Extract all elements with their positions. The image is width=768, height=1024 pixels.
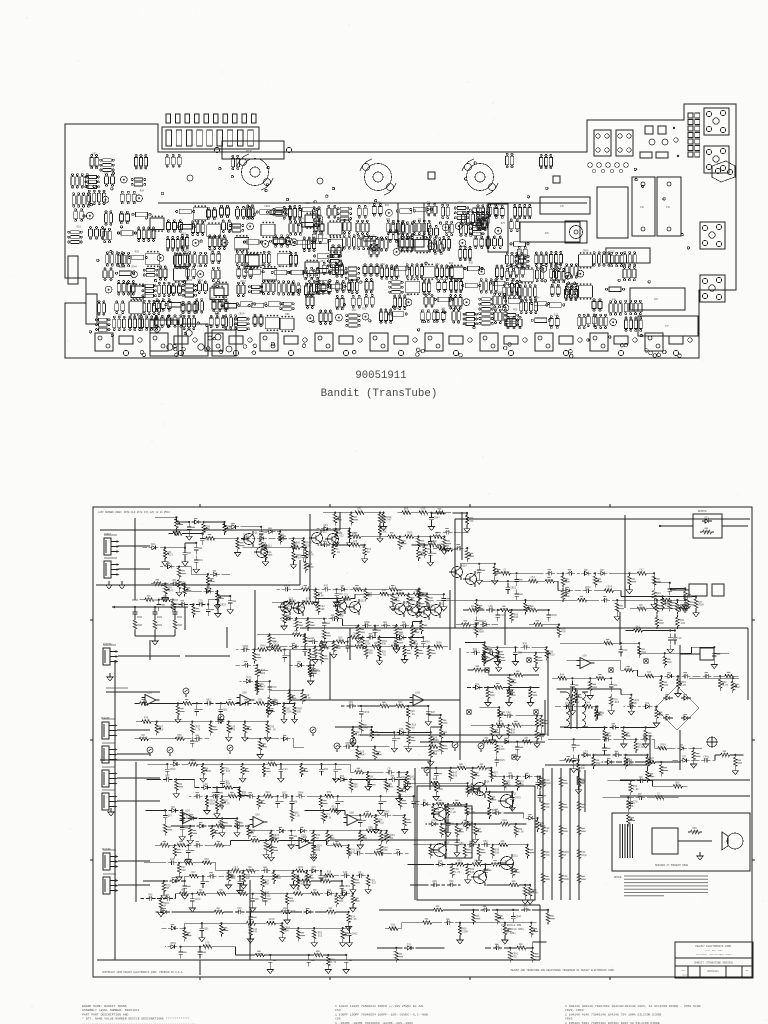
- svg-text:Q51: Q51: [223, 708, 228, 711]
- frame zone ticks: [90, 504, 755, 980]
- svg-text:Q85: Q85: [206, 587, 211, 590]
- svg-text:4.7K: 4.7K: [270, 728, 276, 731]
- pot footprint: [565, 221, 587, 243]
- cap CF1 body: [632, 177, 655, 236]
- svg-text:220K: 220K: [698, 604, 704, 607]
- bottom mid rows: [377, 905, 555, 962]
- svg-text:3.3K: 3.3K: [249, 921, 255, 924]
- source symbols: [147, 688, 484, 776]
- svg-text:.01: .01: [382, 653, 387, 656]
- svg-text:15K: 15K: [383, 849, 388, 852]
- svg-text:47K: 47K: [324, 587, 329, 590]
- svg-text:220K: 220K: [462, 930, 468, 933]
- PCB parts center upper: [166, 202, 355, 253]
- svg-text:4.7K: 4.7K: [269, 921, 275, 924]
- top right sparse: [625, 604, 689, 653]
- svg-text:10K: 10K: [320, 608, 325, 611]
- svg-text:22K: 22K: [242, 794, 247, 797]
- relay RLY2: [488, 204, 508, 252]
- svg-text:COPYRIGHT 1995 PEAVEY ELECTRON: COPYRIGHT 1995 PEAVEY ELECTRONICS CORP. …: [102, 971, 184, 974]
- svg-text:220K: 220K: [286, 710, 292, 713]
- svg-text:2.2M: 2.2M: [680, 684, 686, 687]
- svg-text:.047: .047: [271, 838, 277, 841]
- svg-text:220K: 220K: [382, 592, 388, 595]
- svg-text:U2A: U2A: [186, 810, 191, 813]
- svg-text:CR44: CR44: [119, 266, 125, 269]
- input stage2: [140, 563, 236, 617]
- svg-text:Q77: Q77: [682, 756, 687, 759]
- svg-text:U62: U62: [352, 309, 357, 312]
- svg-text:47pF: 47pF: [560, 676, 566, 679]
- svg-text:15K: 15K: [265, 882, 270, 885]
- svg-text:U52: U52: [92, 152, 97, 155]
- svg-text:(ALT KMB): (ALT KMB): [503, 932, 516, 935]
- svg-text:C22: C22: [554, 314, 559, 317]
- svg-text:4.7K: 4.7K: [474, 862, 480, 865]
- lower left rows: [141, 759, 420, 924]
- svg-text:33K: 33K: [453, 775, 458, 778]
- svg-text:470: 470: [356, 851, 361, 854]
- svg-text:PEAVEY ELECTRONICS CORP.: PEAVEY ELECTRONICS CORP.: [695, 945, 732, 948]
- svg-text:10K: 10K: [300, 882, 305, 885]
- svg-text:PREAMP: PREAMP: [101, 717, 110, 720]
- cap CF2 body: [657, 177, 681, 236]
- svg-text:T7: T7: [665, 324, 669, 328]
- svg-text:1 4N4148 4N4148 73007002: 1 4N4148 4N4148 73007002 4N4148/1N4148 1…: [565, 1004, 701, 1008]
- svg-text:C89: C89: [240, 264, 245, 267]
- svg-text:CR24: CR24: [449, 276, 455, 279]
- svg-text:Q50: Q50: [600, 712, 605, 715]
- relay top rows: [316, 508, 457, 566]
- svg-text:6.8K: 6.8K: [532, 892, 538, 895]
- svg-text:Meridian, Mississippi 39301: Meridian, Mississippi 39301: [696, 953, 732, 956]
- svg-text:CR78: CR78: [195, 898, 201, 901]
- svg-text:Q53: Q53: [459, 842, 464, 845]
- parts list column 1: [82, 1004, 195, 1024]
- svg-text:33K: 33K: [272, 702, 277, 705]
- svg-text:C34: C34: [500, 614, 505, 617]
- svg-text:C53: C53: [272, 686, 277, 689]
- bottom left rows: [155, 907, 358, 973]
- svg-text:47K: 47K: [237, 910, 242, 913]
- svg-text:680: 680: [186, 861, 191, 864]
- psu rows: [552, 639, 739, 714]
- PCB parts center mid: [356, 201, 502, 253]
- IC U10: [175, 253, 189, 270]
- svg-text:680: 680: [353, 786, 358, 789]
- svg-text:100K: 100K: [227, 528, 233, 531]
- svg-text:.047: .047: [421, 554, 427, 557]
- svg-text:3.3K: 3.3K: [353, 543, 359, 546]
- svg-text:22K: 22K: [170, 861, 175, 864]
- svg-text:C22: C22: [203, 783, 208, 786]
- svg-text:D51: D51: [333, 261, 338, 264]
- svg-text:47K: 47K: [253, 931, 258, 934]
- svg-text:10K: 10K: [680, 607, 685, 610]
- svg-text:.022: .022: [370, 882, 376, 885]
- part RC1 body: [214, 141, 291, 159]
- svg-text:BANDIT (TRANSTUBE SERIES): BANDIT (TRANSTUBE SERIES): [695, 961, 734, 965]
- svg-text:U3: U3: [654, 297, 658, 301]
- schematic bus wires: [96, 512, 750, 975]
- svg-text:CR62: CR62: [197, 279, 203, 282]
- svg-text:Q14: Q14: [463, 565, 468, 568]
- svg-text:220K: 220K: [499, 748, 505, 751]
- part RL1 body: [597, 187, 628, 238]
- svg-text:220K: 220K: [365, 643, 371, 646]
- svg-text:CR73: CR73: [246, 677, 252, 680]
- relay RLY1: [398, 203, 424, 247]
- svg-text:1 10425 10425 70500012: 1 10425 10425 70500012 10MFD +/-10% 25VD…: [335, 1004, 424, 1008]
- title block: [675, 942, 753, 978]
- svg-text:C5: C5: [560, 204, 564, 208]
- baffle note text: [501, 924, 525, 935]
- svg-text:Q94: Q94: [327, 889, 332, 892]
- svg-text:(JBL BAFFLE KMB): (JBL BAFFLE KMB): [501, 928, 525, 931]
- svg-text:.01: .01: [410, 713, 415, 716]
- PCB board outline: [65, 104, 736, 358]
- svg-text:100K: 100K: [209, 802, 215, 805]
- svg-text:Q53: Q53: [340, 775, 345, 778]
- svg-text:Q11: Q11: [268, 545, 273, 548]
- chassis ground symbols: [467, 658, 648, 759]
- drive strip rows: [257, 585, 450, 665]
- PCB parts left lower: [96, 297, 295, 332]
- svg-text:100K: 100K: [433, 781, 439, 784]
- svg-text:22K: 22K: [469, 824, 474, 827]
- svg-text:10K: 10K: [656, 595, 661, 598]
- svg-text:100K: 100K: [430, 543, 436, 546]
- svg-text:U37: U37: [261, 264, 266, 267]
- svg-text:U46: U46: [441, 308, 446, 311]
- svg-text:.022: .022: [266, 794, 272, 797]
- mid center rows: [467, 648, 549, 767]
- fsw mid rows: [134, 698, 304, 758]
- svg-text:15K: 15K: [298, 794, 303, 797]
- top mid rows: [431, 512, 474, 562]
- svg-text:4.7K: 4.7K: [268, 847, 274, 850]
- svg-text:6.8K: 6.8K: [206, 701, 212, 704]
- svg-text:47pF: 47pF: [327, 794, 333, 797]
- svg-text:100K: 100K: [259, 672, 265, 675]
- svg-text:U41: U41: [248, 217, 253, 220]
- jack J5: [700, 222, 725, 249]
- PCB parts center low: [306, 260, 525, 327]
- svg-text:C61: C61: [362, 308, 367, 311]
- heatsink screw holes: [187, 172, 560, 184]
- remote speaker inset: [612, 813, 750, 871]
- svg-text:100K: 100K: [205, 770, 211, 773]
- svg-text:470: 470: [629, 705, 634, 708]
- svg-text:22K: 22K: [585, 589, 590, 592]
- svg-text:100K: 100K: [436, 645, 442, 648]
- svg-text:R91: R91: [199, 559, 204, 562]
- svg-text:CR47: CR47: [516, 916, 522, 919]
- svg-text:680: 680: [159, 728, 164, 731]
- svg-text:6.8K: 6.8K: [427, 551, 433, 554]
- svg-text:R28: R28: [449, 262, 454, 265]
- svg-text:680: 680: [384, 813, 389, 816]
- svg-text:C53: C53: [584, 750, 589, 753]
- left vertical parts: [68, 256, 97, 324]
- svg-text:.047: .047: [422, 595, 428, 598]
- svg-text:C27: C27: [133, 297, 138, 300]
- svg-text:U6B: U6B: [243, 692, 248, 695]
- svg-text:6.8K: 6.8K: [177, 737, 183, 740]
- svg-text:R44: R44: [151, 543, 156, 546]
- svg-text:D6: D6: [545, 231, 549, 235]
- svg-text:CR59: CR59: [170, 942, 176, 945]
- svg-text:10K: 10K: [495, 851, 500, 854]
- svg-text:33K: 33K: [338, 639, 343, 642]
- svg-text:U3A: U3A: [256, 814, 261, 817]
- svg-text:R89: R89: [224, 299, 229, 302]
- svg-text:6.8K: 6.8K: [393, 645, 399, 648]
- svg-text:4.7K: 4.7K: [498, 723, 504, 726]
- svg-text:SCALE: SCALE: [682, 974, 687, 977]
- svg-text:4.7K: 4.7K: [294, 815, 300, 818]
- svg-text:3.3K: 3.3K: [638, 746, 644, 749]
- power output stage Q30-Q35: [417, 780, 535, 900]
- svg-text:Q13: Q13: [361, 600, 366, 603]
- svg-text:Q15: Q15: [401, 776, 406, 779]
- svg-text:3.3K: 3.3K: [191, 874, 197, 877]
- PCB parts strip fill: [165, 153, 552, 169]
- svg-text:R69: R69: [513, 309, 518, 312]
- svg-text:Q11: Q11: [514, 855, 519, 858]
- svg-text:47K: 47K: [457, 862, 462, 865]
- svg-text:15K: 15K: [488, 608, 493, 611]
- svg-text:470: 470: [586, 704, 591, 707]
- svg-text:.047: .047: [224, 770, 230, 773]
- svg-text:.022: .022: [506, 714, 512, 717]
- svg-text:3.3K: 3.3K: [191, 762, 197, 765]
- svg-text:33K: 33K: [433, 753, 438, 756]
- svg-text:47K: 47K: [345, 745, 350, 748]
- svg-text:D53: D53: [321, 260, 326, 263]
- svg-text:22K: 22K: [703, 758, 708, 761]
- remote switch box: [659, 510, 748, 538]
- svg-text:470: 470: [545, 854, 550, 857]
- svg-text:D79: D79: [104, 172, 109, 175]
- PCB parts right upper scatter: [445, 204, 531, 237]
- svg-text:CR44: CR44: [131, 265, 137, 268]
- svg-text:U16: U16: [174, 281, 179, 284]
- svg-text:.022: .022: [378, 821, 384, 824]
- svg-text:.022: .022: [316, 934, 322, 937]
- svg-text:.01: .01: [433, 883, 438, 886]
- svg-text:C16: C16: [677, 637, 682, 640]
- input stage rows: [142, 516, 314, 573]
- svg-text:.047: .047: [503, 822, 509, 825]
- svg-text:P.O. BOX 2898: P.O. BOX 2898: [705, 949, 723, 952]
- svg-text:R75: R75: [501, 222, 506, 225]
- svg-text:CR14: CR14: [238, 312, 244, 315]
- svg-text:CR62: CR62: [352, 932, 358, 935]
- svg-text:4.7K: 4.7K: [370, 778, 376, 781]
- svg-text:33K: 33K: [368, 829, 373, 832]
- svg-text:220K: 220K: [545, 782, 551, 785]
- svg-text:1 100PF 100PF 70040054: 1 100PF 100PF 70040054 100PF--10%--50VDC…: [335, 1012, 428, 1016]
- svg-text:C36: C36: [399, 728, 404, 731]
- IC U11: [245, 253, 259, 270]
- svg-text:R40: R40: [228, 872, 233, 875]
- svg-text:CR73: CR73: [515, 797, 521, 800]
- svg-text:Q51: Q51: [204, 927, 209, 930]
- svg-text:Bandit (TransTube): Bandit (TransTube): [321, 388, 438, 400]
- svg-text:33K: 33K: [404, 511, 409, 514]
- svg-text:R10: R10: [494, 307, 499, 310]
- svg-text:680: 680: [181, 869, 186, 872]
- svg-text:2.2M: 2.2M: [407, 534, 413, 537]
- svg-text:CR47: CR47: [240, 280, 246, 283]
- svg-text:47pF: 47pF: [523, 645, 529, 648]
- svg-text:C85: C85: [610, 250, 615, 253]
- connector J2 pin rows: [688, 113, 700, 157]
- AC inlet P1: [707, 737, 717, 747]
- svg-text:R48: R48: [612, 299, 617, 302]
- svg-text:470: 470: [368, 652, 373, 655]
- svg-text:470: 470: [327, 873, 332, 876]
- svg-text:R91: R91: [324, 768, 329, 771]
- svg-text:.01: .01: [388, 770, 393, 773]
- svg-text:47pF: 47pF: [581, 854, 587, 857]
- PCB filler parts: [266, 207, 596, 327]
- svg-text:.047: .047: [386, 519, 392, 522]
- svg-text:CR38: CR38: [170, 768, 176, 771]
- connector J1 body: [162, 127, 259, 149]
- svg-text:Q67: Q67: [168, 815, 173, 818]
- jack J6: [700, 275, 725, 302]
- svg-text:R24: R24: [140, 189, 145, 192]
- svg-text:4.7K: 4.7K: [331, 961, 337, 964]
- svg-text:D52: D52: [77, 226, 82, 229]
- svg-text:.022: .022: [265, 895, 271, 898]
- op-amps U1-U9: [142, 649, 595, 849]
- svg-text:D96: D96: [376, 201, 381, 204]
- svg-text:100K: 100K: [234, 869, 240, 872]
- svg-text:10K: 10K: [514, 616, 519, 619]
- svg-text:INPUT: INPUT: [104, 533, 112, 536]
- svg-text:15K: 15K: [391, 927, 396, 930]
- mid center2: [335, 701, 453, 766]
- part C7 body: [606, 248, 650, 263]
- svg-text:.047: .047: [168, 590, 174, 593]
- power amp rows: [406, 764, 548, 904]
- svg-text:100K: 100K: [606, 589, 612, 592]
- svg-text:.01: .01: [357, 511, 362, 514]
- svg-text:LAST NUMBER USED: NOTE:CLD 25: LAST NUMBER USED: NOTE:CLD 2578 157,225 …: [98, 511, 170, 514]
- svg-text:CR24: CR24: [316, 845, 322, 848]
- svg-text:680: 680: [364, 624, 369, 627]
- svg-text:4.7K: 4.7K: [204, 861, 210, 864]
- parts list column 3: [565, 1004, 701, 1024]
- PCB parts left mid dense: [103, 249, 228, 300]
- svg-text:CR67: CR67: [434, 517, 440, 520]
- right edge connectors: [670, 584, 724, 660]
- svg-text:.047: .047: [284, 587, 290, 590]
- svg-text:CR13: CR13: [364, 711, 370, 714]
- svg-text:220K: 220K: [531, 579, 537, 582]
- power transformer T1: [560, 690, 588, 729]
- svg-text:47pF: 47pF: [439, 546, 445, 549]
- transtube stages Q1-Q14: [241, 530, 480, 620]
- svg-text:4.7K: 4.7K: [305, 697, 311, 700]
- svg-text:47K: 47K: [231, 728, 236, 731]
- power transistor Q20 (TO-3): [237, 154, 273, 190]
- svg-text:6.8K: 6.8K: [450, 811, 456, 814]
- jack J3: [704, 108, 729, 135]
- svg-text:U50: U50: [380, 263, 385, 266]
- svg-text:U7B: U7B: [302, 835, 307, 838]
- psu right tail rows: [602, 757, 688, 826]
- connector J1 pins: [166, 114, 256, 123]
- svg-text:PEAVEY AND TRANSTUBE ARE REGIS: PEAVEY AND TRANSTUBE ARE REGISTERED TRAD…: [511, 969, 616, 972]
- svg-text:CR33: CR33: [498, 291, 504, 294]
- svg-text:CR11: CR11: [525, 265, 531, 268]
- svg-text:C33: C33: [407, 943, 412, 946]
- svg-text:6.8K: 6.8K: [318, 595, 324, 598]
- parts list column 2: [335, 1004, 428, 1024]
- svg-text:.047: .047: [693, 830, 699, 833]
- svg-text:CR65: CR65: [583, 250, 589, 253]
- svg-text:4.7K: 4.7K: [224, 802, 230, 805]
- left edge jack column: [101, 533, 180, 894]
- svg-text:U52: U52: [435, 263, 440, 266]
- PCB bottom pad row: [95, 333, 692, 356]
- svg-text:.022: .022: [338, 535, 344, 538]
- emitter resistor bank: [541, 775, 587, 885]
- svg-text:33K: 33K: [581, 767, 586, 770]
- svg-text:.022: .022: [471, 608, 477, 611]
- svg-text:680: 680: [148, 897, 153, 900]
- svg-text:100K: 100K: [478, 631, 484, 634]
- svg-text:47K: 47K: [165, 778, 170, 781]
- psu mid fill: [555, 688, 663, 755]
- svg-text:U8B: U8B: [350, 812, 355, 815]
- part C5 body: [540, 197, 590, 214]
- svg-text:U2A: U2A: [488, 649, 493, 652]
- svg-text:C9: C9: [666, 205, 670, 209]
- svg-text:15K: 15K: [382, 530, 387, 533]
- svg-text:6.8K: 6.8K: [226, 785, 232, 788]
- svg-text:220K: 220K: [636, 628, 642, 631]
- terminal block TB3: [212, 330, 236, 356]
- svg-text:REMOTE: REMOTE: [698, 510, 707, 513]
- svg-text:15K: 15K: [332, 808, 337, 811]
- svg-text:R96: R96: [285, 313, 290, 316]
- svg-text:100K: 100K: [563, 878, 569, 881]
- svg-text:47K: 47K: [449, 883, 454, 886]
- power transistor Q22 (TO-3): [462, 159, 498, 195]
- svg-text:R16: R16: [438, 860, 443, 863]
- svg-text:R35: R35: [469, 261, 474, 264]
- svg-text:R66: R66: [426, 641, 431, 644]
- svg-text:R77: R77: [399, 234, 404, 237]
- svg-text:22K: 22K: [511, 732, 516, 735]
- svg-text:22K: 22K: [470, 871, 475, 874]
- svg-text:R33: R33: [135, 250, 140, 253]
- svg-text:470: 470: [351, 851, 356, 854]
- svg-text:C20: C20: [394, 307, 399, 310]
- svg-text:SIZE: SIZE: [681, 970, 685, 972]
- svg-text:C84: C84: [283, 768, 288, 771]
- svg-text:C55: C55: [316, 670, 321, 673]
- svg-text:90051911: 90051911: [355, 370, 406, 382]
- svg-text:D17: D17: [118, 314, 123, 317]
- svg-text:R26: R26: [406, 293, 411, 296]
- svg-text:CR6: CR6: [280, 534, 285, 537]
